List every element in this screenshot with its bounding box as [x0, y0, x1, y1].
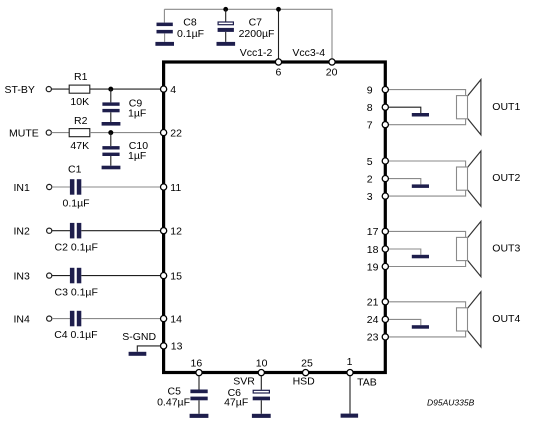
svg-text:C7: C7	[249, 16, 263, 28]
IC body	[164, 62, 386, 373]
wire C4 to pin 14	[81, 318, 160, 320]
speaker OUT3	[457, 221, 521, 276]
wire C1 to pin 11	[81, 186, 160, 188]
node junction ST-BY/C9	[108, 87, 113, 92]
svg-text:R1: R1	[74, 71, 88, 83]
pin 14	[161, 313, 183, 325]
label Vcc3-4	[292, 47, 325, 59]
label SVR	[233, 376, 255, 388]
label TAB	[357, 377, 377, 389]
svg-text:14: 14	[170, 313, 182, 325]
svg-text:3: 3	[367, 191, 373, 203]
wire ST-BY to R1	[51, 88, 69, 90]
svg-text:15: 15	[170, 270, 182, 282]
svg-text:TAB: TAB	[357, 377, 377, 389]
svg-text:17: 17	[367, 226, 379, 238]
svg-text:8: 8	[367, 102, 373, 114]
svg-text:2200µF: 2200µF	[239, 28, 275, 40]
wire pin 8 to ground	[388, 107, 420, 113]
svg-text:5: 5	[367, 156, 373, 168]
svg-text:12: 12	[170, 226, 182, 238]
wire pin 17 to speaker OUT3	[388, 231, 465, 237]
svg-text:Vcc1-2: Vcc1-2	[240, 47, 273, 59]
label D95AU335B	[427, 397, 475, 407]
ground S-GND	[122, 331, 156, 356]
ground OUT1 return	[412, 113, 429, 117]
capacitor C10	[102, 133, 148, 166]
ground TAB	[341, 414, 359, 418]
wire R2 to pin 22	[90, 132, 161, 134]
svg-text:C4 0.1µF: C4 0.1µF	[54, 329, 97, 341]
svg-text:IN3: IN3	[14, 271, 31, 283]
svg-text:OUT3: OUT3	[492, 243, 520, 255]
speaker OUT2	[457, 151, 521, 206]
svg-text:24: 24	[367, 314, 379, 326]
svg-text:11: 11	[170, 182, 181, 194]
ground OUT2 return	[412, 184, 429, 188]
svg-text:18: 18	[367, 244, 379, 256]
pin 12	[161, 226, 183, 238]
capacitor C5	[157, 376, 208, 414]
svg-text:6: 6	[275, 67, 281, 79]
terminal IN1	[14, 182, 52, 194]
wire pin 3 to speaker OUT2	[388, 190, 465, 196]
svg-text:SVR: SVR	[233, 376, 255, 388]
ground C7	[217, 42, 236, 46]
svg-text:0.47µF: 0.47µF	[157, 397, 190, 409]
wire pin 23 to speaker OUT4	[388, 331, 465, 337]
ground C6	[252, 414, 271, 418]
wire pin 9 to speaker OUT1	[388, 90, 465, 96]
pin 15	[161, 270, 183, 282]
svg-text:C1: C1	[68, 163, 82, 175]
wire pin 13 to S-GND	[137, 346, 160, 352]
pin 19	[367, 261, 389, 273]
wire R1 to pin 4	[90, 88, 161, 90]
pin 17	[367, 226, 389, 238]
svg-text:IN4: IN4	[14, 314, 31, 326]
pin 4	[161, 84, 177, 96]
wire pin 2 to ground	[388, 179, 420, 185]
node junction pin6 branch/rail	[276, 7, 281, 12]
terminal MUTE	[9, 128, 51, 140]
svg-text:C5: C5	[168, 385, 182, 397]
svg-text:Vcc3-4: Vcc3-4	[292, 47, 325, 59]
node junction C7/rail	[223, 7, 228, 12]
pin 11	[161, 182, 182, 194]
resistor R2	[69, 115, 90, 152]
pin 23	[367, 332, 389, 344]
pin 24	[367, 314, 389, 326]
svg-text:C8: C8	[183, 16, 197, 28]
ground C9	[102, 122, 121, 126]
svg-text:0.1µF: 0.1µF	[63, 198, 90, 210]
svg-text:13: 13	[171, 341, 183, 353]
svg-text:C3 0.1µF: C3 0.1µF	[55, 287, 98, 299]
terminal ST-BY	[5, 84, 52, 96]
svg-text:47µF: 47µF	[224, 397, 248, 409]
capacitor C3	[55, 268, 98, 299]
svg-text:7: 7	[367, 120, 373, 132]
wire IN3 to C3	[52, 275, 70, 277]
wire IN2 to C2	[52, 230, 70, 232]
label Vcc1-2	[240, 47, 273, 59]
wire pin 1 to ground	[349, 376, 351, 414]
speaker OUT4	[457, 292, 521, 347]
pin 10 SVR	[256, 357, 268, 375]
svg-text:D95AU335B: D95AU335B	[427, 397, 475, 407]
terminal IN3	[14, 271, 52, 283]
wire pin 21 to speaker OUT4	[388, 302, 465, 308]
pin 9	[367, 84, 389, 96]
svg-text:0.1µF: 0.1µF	[177, 28, 204, 40]
pin 18	[367, 244, 389, 256]
svg-text:10: 10	[256, 357, 268, 369]
label HSD	[293, 376, 316, 388]
svg-text:19: 19	[367, 261, 379, 273]
capacitor C2	[55, 223, 98, 254]
pin 6 Vcc1-2	[275, 59, 281, 79]
capacitor C9	[102, 89, 146, 122]
svg-text:OUT1: OUT1	[492, 101, 520, 113]
svg-text:23: 23	[367, 332, 379, 344]
pin 21	[367, 297, 389, 309]
wire MUTE to R2	[51, 132, 69, 134]
svg-text:47K: 47K	[70, 140, 89, 152]
capacitor C7 (electrolytic)	[218, 9, 275, 42]
wire pin 18 to ground	[388, 249, 420, 255]
svg-text:ST-BY: ST-BY	[5, 84, 35, 96]
svg-text:9: 9	[367, 84, 373, 96]
wire pin 7 to speaker OUT1	[388, 119, 465, 125]
svg-text:IN1: IN1	[14, 182, 31, 194]
wire IN4 to C4	[52, 318, 70, 320]
pin 1 TAB	[347, 356, 353, 376]
svg-text:21: 21	[367, 297, 379, 309]
ground OUT4 return	[412, 325, 429, 329]
svg-text:MUTE: MUTE	[9, 128, 39, 140]
wire pin 5 to speaker OUT2	[388, 161, 465, 167]
terminal IN2	[14, 226, 52, 238]
ground C5	[190, 414, 209, 418]
pin 8	[367, 102, 389, 114]
pin 16	[191, 357, 203, 375]
wire supply rail	[164, 9, 332, 59]
svg-text:1: 1	[347, 356, 353, 368]
svg-text:IN2: IN2	[14, 226, 31, 238]
terminal IN4	[14, 314, 52, 326]
svg-text:S-GND: S-GND	[122, 331, 156, 343]
capacitor C6 (electrolytic)	[224, 376, 270, 414]
svg-text:20: 20	[326, 67, 338, 79]
svg-text:HSD: HSD	[293, 376, 316, 388]
svg-text:OUT2: OUT2	[492, 172, 520, 184]
wire C2 to pin 12	[81, 230, 160, 232]
pin 25 HSD	[301, 357, 313, 375]
pin 7	[367, 120, 389, 132]
svg-text:10K: 10K	[70, 96, 89, 108]
pin 2	[367, 173, 389, 185]
ground C8	[155, 42, 174, 46]
svg-text:R2: R2	[74, 115, 88, 127]
wire pin 19 to speaker OUT3	[388, 261, 465, 267]
ground OUT3 return	[412, 255, 429, 258]
svg-text:1µF: 1µF	[128, 150, 146, 162]
wire pin 24 to ground	[388, 319, 420, 325]
wire C3 to pin 15	[81, 275, 160, 277]
wire Vcc1-2 branch to pin 6	[278, 9, 280, 59]
svg-text:25: 25	[301, 357, 313, 369]
speaker OUT1	[457, 80, 521, 135]
node junction MUTE/C10	[108, 130, 113, 135]
ground C10	[102, 166, 121, 170]
svg-text:4: 4	[170, 84, 176, 96]
pin 13	[161, 341, 183, 353]
svg-text:1µF: 1µF	[128, 108, 146, 120]
pin 3	[367, 191, 389, 203]
svg-text:C2 0.1µF: C2 0.1µF	[55, 242, 98, 254]
pin 22	[161, 128, 183, 140]
capacitor C4	[54, 311, 97, 341]
svg-text:16: 16	[191, 357, 203, 369]
svg-text:OUT4: OUT4	[492, 313, 520, 325]
capacitor C8	[157, 9, 205, 42]
svg-text:2: 2	[367, 173, 373, 185]
pin 5	[367, 156, 389, 168]
wire IN1 to C1	[52, 186, 70, 188]
svg-text:22: 22	[170, 128, 182, 140]
pin 20 Vcc3-4	[326, 59, 338, 79]
resistor R1	[69, 71, 90, 108]
capacitor C1	[63, 163, 90, 209]
